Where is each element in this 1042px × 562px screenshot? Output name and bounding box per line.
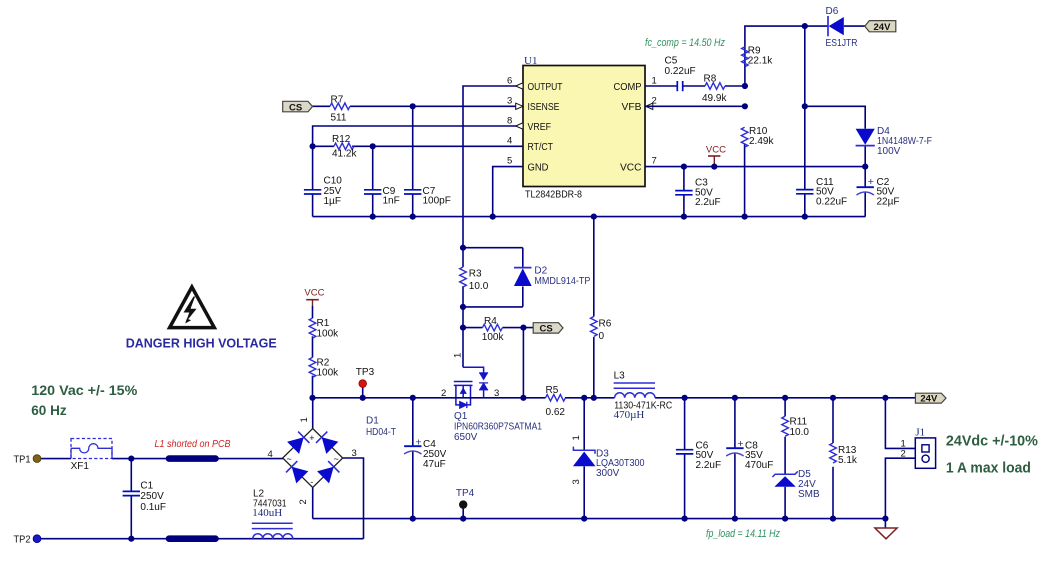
wire GND pin leg [493, 167, 523, 217]
junction (683.9,216.6) [681, 214, 687, 220]
svg-text:+: + [415, 437, 421, 449]
junction (584.2,397.8) [581, 395, 587, 401]
wire R3 top link [463, 247, 523, 249]
svg-text:TP4: TP4 [456, 488, 475, 499]
junction (131.3,538.7) [128, 536, 134, 542]
capacitor C9 [364, 190, 381, 194]
svg-text:0.62: 0.62 [546, 407, 566, 418]
capacitor C5 [677, 81, 682, 91]
svg-text:R12: R12 [332, 134, 351, 145]
svg-text:60 Hz: 60 Hz [31, 403, 67, 418]
bridge diode top-right [322, 437, 339, 454]
wire VREF row with corner down [313, 126, 523, 146]
diode D3 LQA30T300 [571, 435, 645, 484]
svg-text:47uF: 47uF [423, 459, 446, 470]
svg-text:R8: R8 [704, 73, 717, 84]
junction (734.9,518.6) [732, 516, 738, 522]
junction (523.4,327.6) [520, 325, 526, 331]
wire R8 to divider [725, 85, 745, 87]
Q1 body diode [460, 402, 467, 408]
svg-text:24Vdc +/-10%: 24Vdc +/-10% [946, 433, 1038, 449]
svg-text:7: 7 [652, 156, 657, 167]
wire RT/CT row [313, 145, 334, 147]
svg-text:DANGER HIGH VOLTAGE: DANGER HIGH VOLTAGE [126, 336, 277, 351]
net label CS (gate side) [533, 323, 563, 335]
bridge diode top-left [287, 437, 304, 454]
svg-text:1: 1 [571, 435, 582, 440]
wire D4 cathode to VCC rail [864, 146, 866, 167]
svg-text:0.22uF: 0.22uF [816, 196, 847, 207]
junction (412.8,397.8) [410, 395, 416, 401]
junction (312.5,397.8) [309, 395, 315, 401]
junction (463.2,518.6) [460, 516, 466, 522]
svg-text:GND: GND [528, 161, 549, 173]
fuse XF1 [71, 439, 112, 459]
wire OUTPUT leg down to gate network [463, 86, 523, 248]
Q1 gate-source zener pair [479, 373, 488, 390]
svg-text:1: 1 [299, 417, 310, 422]
svg-text:2.49k: 2.49k [749, 136, 774, 147]
inductor L1 shorted bar (top) [169, 455, 216, 462]
junction (683.9,166.6) [681, 164, 687, 170]
wire D6 cathode-side node A vertical [804, 26, 806, 106]
svg-text:+: + [737, 438, 743, 450]
port 24V (output) [915, 393, 946, 404]
svg-text:250V: 250V [140, 491, 164, 502]
wire TP1 to fuse [41, 458, 71, 460]
wire R2 to main line [312, 376, 314, 398]
junction (463,306.9) [460, 304, 466, 310]
junction (865.2,166.6) [862, 164, 868, 170]
wire J1 pin2 leg to ground [885, 458, 915, 518]
wire C2 branch [864, 167, 866, 188]
junction (785.1,518.6) [782, 516, 788, 522]
port 24V (top right) [865, 21, 896, 33]
wire VCC rail [645, 166, 865, 168]
junction (744.9,86) [742, 83, 748, 89]
svg-text:8: 8 [507, 116, 512, 127]
svg-text:L3: L3 [614, 370, 626, 381]
svg-text:470uF: 470uF [745, 460, 773, 471]
svg-text:24V: 24V [874, 22, 892, 33]
svg-text:OUTPUT: OUTPUT [528, 81, 563, 93]
junction (412.8,518.6) [410, 516, 416, 522]
svg-text:10.0: 10.0 [469, 281, 489, 292]
svg-text:4: 4 [507, 136, 512, 147]
svg-text:R5: R5 [546, 385, 559, 396]
junction (804.8,216.6) [802, 214, 808, 220]
svg-text:fc_comp = 14.50 Hz: fc_comp = 14.50 Hz [645, 37, 725, 49]
svg-text:RT/CT: RT/CT [528, 141, 554, 153]
wire R3 legs [462, 248, 464, 267]
test point TP2 [33, 535, 41, 543]
wire R3/D2 bottom link [463, 306, 523, 308]
junction (804.8,106.3) [802, 103, 808, 109]
capacitor C6 [676, 450, 693, 454]
svg-text:CS: CS [540, 324, 553, 335]
junction (684.6,397.8) [682, 395, 688, 401]
junction (362.7,397.8) [360, 395, 366, 401]
wire top rail to D6 [745, 26, 828, 86]
svg-text:2: 2 [298, 499, 309, 504]
svg-text:1: 1 [453, 353, 464, 358]
svg-text:D6: D6 [826, 6, 839, 17]
svg-text:XF1: XF1 [71, 461, 90, 472]
resistor R10 [741, 127, 748, 147]
svg-text:100V: 100V [877, 146, 901, 157]
svg-text:120 Vac +/- 15%: 120 Vac +/- 15% [31, 383, 137, 398]
resistor R5 [546, 395, 566, 402]
junction (593.8,216.6) [591, 214, 597, 220]
junction (885.4,518.6) [882, 516, 888, 522]
svg-text:100k: 100k [482, 332, 505, 343]
svg-text:VCC: VCC [304, 288, 324, 299]
svg-text:511: 511 [331, 113, 347, 124]
svg-text:100pF: 100pF [423, 196, 451, 207]
op-amp / PWM controller U1 TL2842BDR-8 [507, 55, 657, 201]
svg-text:C10: C10 [324, 176, 343, 187]
wire secondary ground rail [313, 518, 886, 520]
svg-text:1nF: 1nF [383, 196, 400, 207]
svg-text:3: 3 [352, 448, 357, 459]
junction (412.7,216.6) [410, 214, 416, 220]
wire bridge plus leg [312, 398, 314, 429]
diode D6 ES1JTR [826, 6, 858, 49]
svg-text:Q1: Q1 [454, 411, 468, 422]
wire main switch-node line [313, 397, 546, 399]
junction (804.8,26.1) [802, 23, 808, 29]
wire D2 branch verticals [522, 248, 524, 268]
svg-text:2.2uF: 2.2uF [696, 460, 722, 471]
svg-text:J1: J1 [915, 426, 925, 438]
wire gate node leg [462, 307, 464, 367]
resistor R3 [460, 267, 467, 287]
svg-text:TL2842BDR-8: TL2842BDR-8 [525, 190, 582, 201]
junction (372.7,146.3) [370, 143, 376, 149]
resistor R9 [742, 47, 749, 67]
wire control ground rail [313, 216, 866, 218]
wire bridge ac leg to bottom row [343, 458, 364, 539]
svg-text:C1: C1 [140, 481, 153, 492]
svg-text:4: 4 [268, 449, 273, 460]
wire VFB row to divider [645, 105, 745, 107]
inductor L2 7447031 [252, 523, 293, 538]
junction (523.4,397.8) [520, 395, 526, 401]
wire R6 vertical [593, 217, 595, 317]
test point TP4 [459, 500, 467, 508]
bridge diode bottom-left [292, 467, 309, 484]
Q1 enhancement arrow [460, 387, 467, 394]
svg-text:2: 2 [901, 448, 906, 459]
svg-text:140uH: 140uH [252, 507, 282, 519]
junction (734.9,397.8) [732, 395, 738, 401]
resistor R13 [830, 443, 837, 463]
wire C4 branch [412, 398, 414, 446]
svg-text:22.1k: 22.1k [748, 56, 773, 67]
junction (463,247.7) [460, 245, 466, 251]
svg-text:~: ~ [287, 454, 292, 464]
svg-text:2.2uF: 2.2uF [695, 197, 721, 208]
net label CS (left) [283, 101, 313, 113]
resistor R4 [483, 324, 503, 331]
capacitor C3 [675, 191, 692, 195]
resistor R6 [591, 317, 598, 337]
transistor Q1 IPN60R360P7SATMA1 [454, 367, 486, 405]
connector J1 [901, 426, 936, 468]
svg-text:0: 0 [599, 331, 605, 342]
resistor R7 [330, 103, 350, 110]
wire R4 row [463, 327, 483, 329]
wire C1 branch [130, 459, 132, 492]
wire R13 branch [832, 398, 834, 443]
capacitor C10 [304, 190, 321, 194]
capacitor C11 [796, 190, 813, 194]
bridge diode bottom-right [317, 467, 334, 484]
svg-text:5.1k: 5.1k [838, 455, 858, 466]
svg-text:ISENSE: ISENSE [528, 101, 560, 113]
junction (833,397.8) [830, 395, 836, 401]
svg-text:VCC: VCC [620, 161, 642, 173]
svg-text:U1: U1 [524, 55, 537, 67]
svg-text:L1 shorted on PCB: L1 shorted on PCB [155, 438, 231, 450]
svg-text:300V: 300V [596, 468, 620, 479]
svg-text:+: + [309, 433, 314, 443]
ground symbol [875, 519, 897, 539]
svg-text:0.1uF: 0.1uF [140, 502, 166, 513]
svg-text:HD04-T: HD04-T [366, 427, 396, 438]
wire C10 branch [312, 146, 314, 190]
diode D2 MMDL914-TP [514, 266, 591, 287]
svg-text:10.0: 10.0 [790, 427, 810, 438]
wire C3 branch [683, 167, 685, 191]
svg-text:IPN60R360P7SATMA1: IPN60R360P7SATMA1 [454, 422, 542, 433]
junction (131.3,458.6) [128, 456, 134, 462]
junction (492.7,216.6) [490, 214, 496, 220]
svg-text:VREF: VREF [528, 121, 552, 133]
junction (833,518.6) [830, 516, 836, 522]
wire C7 branch [412, 106, 414, 190]
resistor R1 [309, 318, 316, 338]
inductor L1 shorted bar (bottom) [169, 535, 216, 542]
svg-text:R3: R3 [469, 268, 482, 279]
wire C9 branch [372, 146, 374, 190]
bridge rectifier D1 HD04-T [268, 417, 357, 504]
capacitor C4 (electrolytic) [404, 446, 421, 454]
junction (684.6,518.6) [682, 516, 688, 522]
wire J1 pin1 leg [885, 398, 915, 449]
svg-text:R4: R4 [484, 316, 497, 327]
capacitor C8 (electrolytic) [726, 448, 743, 456]
junction (312.6,146.3) [310, 143, 316, 149]
wire COMP to C5 [645, 85, 677, 87]
svg-text:5: 5 [507, 156, 512, 167]
wire R1 to R2 [312, 336, 314, 357]
power port VCC (top) [706, 144, 726, 166]
svg-text:3: 3 [507, 96, 512, 107]
resistor R8 [705, 83, 725, 90]
wire ISENSE row: CS tag to R7 to U1 pin3 [313, 105, 331, 107]
svg-text:6: 6 [507, 76, 512, 87]
svg-text:+: + [868, 176, 874, 188]
wire C11 branch [804, 106, 806, 189]
wire R10 lower leg to ground rail [744, 144, 746, 216]
svg-text:TP1: TP1 [14, 454, 31, 465]
svg-text:24V: 24V [920, 394, 938, 405]
svg-text:1µF: 1µF [324, 196, 341, 207]
resistor R2 [309, 357, 316, 377]
test point TP3 [359, 380, 367, 388]
svg-text:CS: CS [289, 102, 302, 113]
wire D3 branch [583, 398, 585, 451]
power port VCC (left) [304, 288, 324, 306]
svg-text:D1: D1 [366, 415, 379, 426]
svg-text:COMP: COMP [614, 81, 642, 93]
svg-text:650V: 650V [454, 432, 478, 443]
capacitor C2 (electrolytic) [857, 187, 874, 195]
wire D6 to 24V port [844, 25, 865, 27]
svg-text:MMDL914-TP: MMDL914-TP [534, 276, 590, 287]
junction (593.8,397.8) [591, 395, 597, 401]
svg-text:ES1JTR: ES1JTR [826, 38, 858, 49]
wire node A to D4 [805, 106, 865, 128]
svg-text:VFB: VFB [622, 101, 642, 113]
svg-text:~: ~ [334, 454, 339, 464]
wire C6 branch [684, 398, 686, 450]
wire bridge minus leg to ground rail [312, 488, 314, 519]
svg-text:TP3: TP3 [356, 367, 375, 378]
svg-text:100k: 100k [317, 368, 340, 379]
wire CS junction down to switch node [522, 328, 524, 398]
wire C8 branch [734, 398, 736, 448]
resistor R12 [334, 143, 354, 150]
svg-text:R6: R6 [599, 319, 612, 330]
junction (785.1,397.8) [782, 395, 788, 401]
svg-text:TP2: TP2 [14, 534, 31, 545]
svg-text:D4: D4 [877, 126, 890, 137]
wire TP3 stub [362, 387, 364, 398]
svg-text:1 A max load: 1 A max load [946, 461, 1031, 477]
svg-text:R7: R7 [331, 95, 344, 106]
inductor L3 1130-471K-RC [614, 383, 655, 398]
svg-text:470µH: 470µH [614, 409, 645, 421]
wire C5 to R8 [683, 85, 705, 87]
junction (372.7,216.6) [370, 214, 376, 220]
svg-text:22µF: 22µF [877, 196, 900, 207]
svg-text:3: 3 [571, 479, 582, 484]
svg-text:R11: R11 [790, 417, 808, 428]
svg-text:R10: R10 [749, 126, 768, 137]
svg-text:100k: 100k [317, 328, 340, 339]
svg-text:-: - [310, 477, 313, 487]
warning triangle symbol [170, 287, 215, 328]
resistor R11 [782, 416, 789, 436]
wire TP2 row [41, 538, 364, 540]
svg-text:0.22uF: 0.22uF [665, 66, 696, 77]
diode D4 1N4148W-7-F [856, 126, 932, 157]
wire fuse to bridge (through L1 short) [112, 458, 283, 460]
junction (744.9,106.3) [742, 103, 748, 109]
svg-text:R9: R9 [748, 45, 761, 56]
junction (412.7,106.3) [410, 103, 416, 109]
svg-text:VCC: VCC [706, 144, 726, 155]
capacitor C7 [404, 190, 421, 194]
svg-text:49.9k: 49.9k [702, 93, 727, 104]
svg-text:C5: C5 [665, 56, 678, 67]
wire VCC to R1 [312, 306, 314, 318]
diode D5 zener 24V SMB [772, 469, 820, 500]
junction (714.3,166.6) [711, 164, 717, 170]
wire R11 / D5 branch [784, 398, 786, 417]
capacitor C1 [123, 491, 140, 495]
svg-text:SMB: SMB [798, 489, 820, 500]
junction (584.2,518.6) [581, 516, 587, 522]
svg-text:1: 1 [652, 76, 657, 87]
wire TP4 stub [462, 508, 464, 518]
junction (744.6,216.6) [742, 214, 748, 220]
svg-text:41.2k: 41.2k [332, 148, 357, 159]
junction (885.4,397.8) [882, 395, 888, 401]
junction (463,327.6) [460, 325, 466, 331]
svg-text:fp_load = 14.11 Hz: fp_load = 14.11 Hz [706, 528, 780, 540]
test point TP1 [33, 455, 41, 463]
